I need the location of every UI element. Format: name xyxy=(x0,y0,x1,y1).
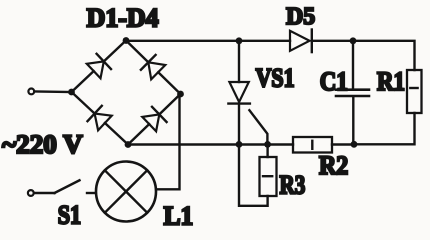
node VS1 anode junction xyxy=(236,37,243,44)
svg-text:C1: C1 xyxy=(320,67,348,96)
thyristor VS1 xyxy=(228,41,267,145)
svg-text:S1: S1 xyxy=(58,200,81,229)
wire VS1 cathode loop to R3 bottom xyxy=(239,145,268,206)
resistor R3 xyxy=(260,144,277,196)
svg-text:VS1: VS1 xyxy=(256,63,295,92)
wire lamp right to bridge right node xyxy=(156,94,179,189)
wire top rail (D5 to R1 corner) xyxy=(312,41,415,70)
diode D4 (bridge bottom-right arm) xyxy=(128,94,181,145)
terminal AC top xyxy=(28,89,34,95)
svg-text:R2: R2 xyxy=(319,151,348,180)
node VS1 cathode junction xyxy=(236,141,243,148)
node C1 bottom junction xyxy=(351,141,358,148)
svg-text:L1: L1 xyxy=(164,202,194,231)
diode D3 (bridge left-bottom arm) xyxy=(72,92,129,145)
node bridge right xyxy=(177,91,184,98)
diode D5 xyxy=(290,30,312,53)
node C1 top junction xyxy=(350,37,357,44)
wire middle rail (bridge bottom to R2) xyxy=(128,143,293,145)
switch S1 xyxy=(28,180,80,196)
resistor R2 xyxy=(293,137,354,153)
wire lamp left stub xyxy=(87,192,96,194)
diode D1 (bridge left-top arm) xyxy=(72,41,127,93)
svg-text:R1: R1 xyxy=(377,67,405,96)
node bridge bottom xyxy=(125,141,132,148)
svg-text:D5: D5 xyxy=(286,3,315,30)
wire top rail (bridge top to D5) xyxy=(126,40,290,42)
node bridge top xyxy=(123,37,130,44)
wire top terminal to bridge left xyxy=(34,90,71,93)
svg-text:R3: R3 xyxy=(280,171,306,200)
resistor R1 xyxy=(354,70,422,144)
capacitor C1 xyxy=(336,41,369,145)
svg-text:~220 V: ~220 V xyxy=(2,130,83,159)
diode D2 (bridge top-right arm) xyxy=(126,41,181,95)
svg-text:D1-D4: D1-D4 xyxy=(87,4,159,33)
node bridge left xyxy=(68,89,75,96)
lamp L1 xyxy=(96,162,156,222)
node gate / R3 junction xyxy=(264,141,271,148)
